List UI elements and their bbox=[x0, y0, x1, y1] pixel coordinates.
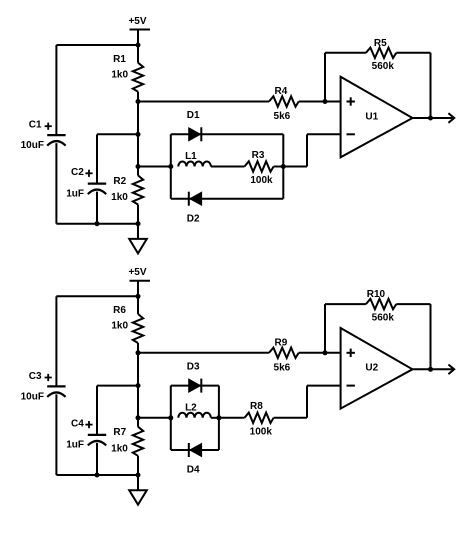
svg-text:C1: C1 bbox=[29, 120, 42, 131]
svg-text:1k0: 1k0 bbox=[111, 69, 128, 80]
svg-text:L2: L2 bbox=[185, 402, 197, 413]
wire output with arrow bbox=[413, 113, 455, 123]
wire bbox=[307, 133, 341, 135]
svg-text:+5V: +5V bbox=[128, 267, 146, 278]
node noninverting input bbox=[323, 99, 328, 104]
node R6/R9 junction bbox=[136, 350, 141, 355]
capacitor C1 bbox=[45, 123, 66, 146]
svg-text:R7: R7 bbox=[113, 427, 126, 438]
svg-text:+5V: +5V bbox=[128, 16, 146, 27]
svg-text:D1: D1 bbox=[187, 110, 200, 121]
node R1/R4 junction bbox=[136, 99, 141, 104]
wire bbox=[138, 417, 171, 419]
node +5V junction bbox=[136, 294, 141, 299]
wire bbox=[170, 134, 172, 198]
node ground junction bbox=[136, 473, 141, 478]
resistor R3 bbox=[245, 161, 274, 171]
capacitor C2 bbox=[85, 170, 106, 194]
wire bbox=[283, 166, 307, 168]
node box left bbox=[168, 164, 173, 169]
svg-text:R3: R3 bbox=[252, 150, 265, 161]
svg-text:R2: R2 bbox=[113, 176, 126, 187]
wire bbox=[56, 44, 138, 46]
resistor R7 bbox=[133, 418, 143, 475]
node output feedback tap bbox=[428, 116, 433, 121]
resistor R9 bbox=[269, 348, 299, 358]
resistor R8 bbox=[245, 413, 274, 423]
wire bbox=[282, 134, 284, 198]
svg-text:100k: 100k bbox=[250, 175, 273, 186]
wire bbox=[324, 304, 326, 353]
wire bbox=[306, 386, 308, 418]
wire bbox=[211, 166, 245, 168]
wire output with arrow bbox=[413, 365, 455, 375]
wire bbox=[219, 417, 245, 419]
wire bbox=[171, 133, 283, 135]
svg-text:10uF: 10uF bbox=[21, 140, 44, 151]
svg-text:1k0: 1k0 bbox=[111, 443, 128, 454]
diode D3 bbox=[189, 379, 202, 393]
wire bbox=[56, 474, 138, 476]
wire bbox=[324, 53, 326, 102]
svg-text:D4: D4 bbox=[187, 465, 200, 476]
ground bbox=[129, 224, 147, 254]
node middle-branch tap bbox=[136, 164, 141, 169]
wire bbox=[170, 386, 172, 450]
capacitor C3 bbox=[45, 374, 66, 397]
wire bbox=[138, 352, 269, 354]
resistor R5 bbox=[366, 48, 396, 58]
wire bbox=[299, 101, 341, 103]
wire bbox=[138, 101, 269, 103]
wire bbox=[96, 192, 98, 224]
diode D1 bbox=[189, 127, 202, 141]
wire bbox=[218, 386, 220, 450]
svg-text:R9: R9 bbox=[275, 337, 288, 348]
svg-text:R5: R5 bbox=[374, 38, 387, 49]
wire bbox=[56, 295, 138, 297]
wire bbox=[137, 134, 139, 166]
wire bbox=[430, 53, 432, 118]
svg-text:560k: 560k bbox=[372, 61, 395, 72]
op-amp U1 bbox=[341, 77, 413, 158]
svg-text:U1: U1 bbox=[365, 111, 378, 122]
node box right bbox=[281, 164, 286, 169]
svg-text:5k6: 5k6 bbox=[274, 111, 291, 122]
node ground junction bbox=[136, 221, 141, 226]
resistor R10 bbox=[366, 299, 396, 309]
node +5V junction bbox=[136, 43, 141, 48]
svg-text:U2: U2 bbox=[365, 363, 378, 374]
inductor L1 bbox=[178, 162, 211, 167]
svg-text:R1: R1 bbox=[113, 54, 126, 65]
wire bbox=[55, 296, 57, 386]
wire bbox=[137, 386, 139, 418]
ground bbox=[129, 475, 147, 505]
inductor L2 bbox=[178, 413, 211, 418]
svg-text:R4: R4 bbox=[275, 86, 288, 97]
diode D4 bbox=[189, 443, 202, 457]
wire bbox=[307, 385, 341, 387]
wire bbox=[97, 385, 138, 387]
wire bbox=[171, 385, 219, 387]
resistor R6 bbox=[133, 296, 143, 353]
svg-text:1k0: 1k0 bbox=[111, 321, 128, 332]
wire bbox=[299, 352, 341, 354]
svg-text:1uF: 1uF bbox=[66, 440, 84, 451]
svg-text:100k: 100k bbox=[250, 427, 273, 438]
diode D2 bbox=[189, 192, 202, 206]
svg-text:D3: D3 bbox=[187, 361, 200, 372]
node C2 ground bbox=[95, 221, 100, 226]
svg-text:L1: L1 bbox=[185, 151, 197, 162]
node C4 ground bbox=[95, 473, 100, 478]
node C2 tap bbox=[136, 132, 141, 137]
svg-text:1k0: 1k0 bbox=[111, 192, 128, 203]
wire bbox=[55, 394, 57, 475]
wire bbox=[274, 417, 307, 419]
resistor R4 bbox=[269, 96, 299, 106]
wire bbox=[325, 303, 366, 305]
node box right bbox=[216, 415, 221, 420]
wire bbox=[97, 133, 138, 135]
svg-text:560k: 560k bbox=[372, 312, 395, 323]
wire bbox=[137, 102, 139, 135]
wire bbox=[396, 52, 430, 54]
power +5V (+5V) bbox=[128, 16, 150, 45]
svg-text:C3: C3 bbox=[29, 371, 42, 382]
wire bbox=[325, 52, 366, 54]
svg-text:R8: R8 bbox=[250, 401, 263, 412]
op-amp U2 bbox=[341, 328, 413, 409]
wire bbox=[55, 45, 57, 135]
node noninverting input bbox=[323, 350, 328, 355]
wire bbox=[55, 143, 57, 224]
svg-text:C2: C2 bbox=[71, 167, 84, 178]
wire bbox=[396, 303, 430, 305]
svg-text:1uF: 1uF bbox=[66, 188, 84, 199]
wire bbox=[171, 449, 219, 451]
wire bbox=[137, 353, 139, 386]
resistor R2 bbox=[133, 167, 143, 224]
resistor R1 bbox=[133, 45, 143, 102]
node middle-branch tap bbox=[136, 415, 141, 420]
wire bbox=[56, 223, 138, 225]
wire bbox=[96, 443, 98, 475]
node C4 tap bbox=[136, 383, 141, 388]
wire bbox=[96, 386, 98, 435]
svg-text:R10: R10 bbox=[367, 289, 386, 300]
power +5V (+5V) bbox=[128, 267, 150, 296]
wire bbox=[306, 134, 308, 166]
svg-text:R6: R6 bbox=[113, 305, 126, 316]
wire bbox=[138, 166, 171, 168]
wire bbox=[96, 134, 98, 183]
wire bbox=[274, 166, 284, 168]
wire bbox=[430, 304, 432, 369]
svg-text:10uF: 10uF bbox=[21, 391, 44, 402]
svg-text:D2: D2 bbox=[187, 213, 200, 224]
capacitor C4 bbox=[85, 421, 106, 445]
svg-text:C4: C4 bbox=[71, 418, 84, 429]
wire bbox=[211, 417, 219, 419]
svg-text:5k6: 5k6 bbox=[274, 362, 291, 373]
wire bbox=[171, 198, 283, 200]
node box left bbox=[168, 415, 173, 420]
node output feedback tap bbox=[428, 367, 433, 372]
